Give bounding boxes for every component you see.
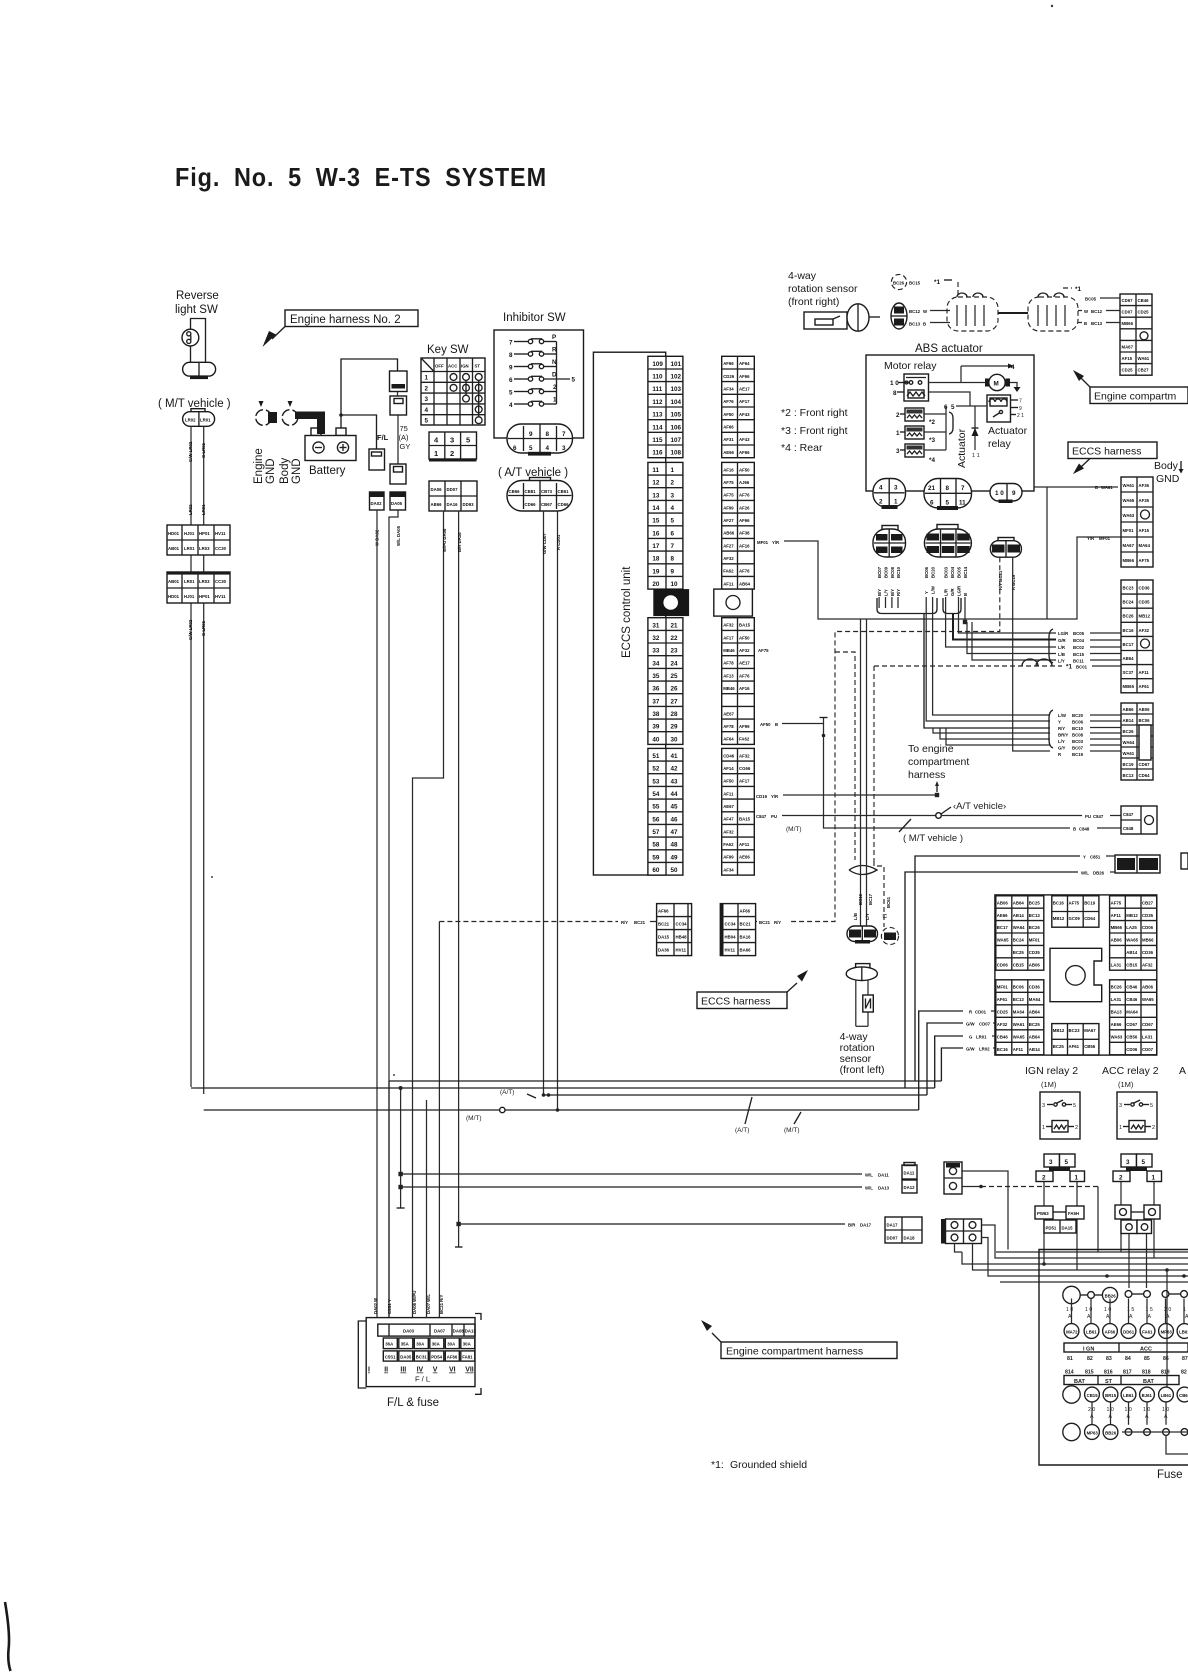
svg-text:BC20: BC20 (931, 566, 936, 578)
svg-text:1: 1 (671, 467, 675, 474)
svg-text:AB14: AB14 (1123, 718, 1135, 723)
svg-text:AF66: AF66 (739, 450, 750, 455)
svg-text:AF76: AF76 (723, 399, 734, 404)
svg-text:AF32: AF32 (997, 1022, 1008, 1027)
svg-text:HB48: HB48 (676, 935, 688, 940)
svg-text:BA16: BA16 (740, 935, 752, 940)
svg-text:46: 46 (671, 816, 679, 823)
svg-text:G/Y: G/Y (1058, 746, 1066, 751)
svg-text:82: 82 (1181, 1370, 1187, 1376)
svg-text:AE66: AE66 (723, 450, 734, 455)
svg-text:AF32: AF32 (1139, 628, 1150, 633)
svg-text:2: 2 (1152, 1125, 1155, 1131)
svg-text:4: 4 (879, 485, 883, 492)
svg-text:AF27: AF27 (723, 543, 734, 548)
svg-text:AF75: AF75 (1111, 900, 1122, 905)
right connector table 5 (1121, 806, 1157, 834)
svg-text:BC31: BC31 (416, 1354, 428, 1359)
svg-text:1: 1 (434, 449, 438, 458)
svg-text:59: 59 (652, 854, 660, 861)
svg-text:DA11: DA11 (904, 1171, 915, 1176)
svg-text:A: A (1129, 1314, 1133, 1320)
svg-text:HV11: HV11 (725, 948, 736, 953)
svg-text:DD07: DD07 (887, 1236, 899, 1241)
wire Y/R corridor (784, 537, 1121, 619)
svg-text:AF36: AF36 (1139, 483, 1150, 488)
wire battery+ up and over (341, 359, 398, 428)
pin 4 lead (961, 365, 1008, 367)
svg-text:AF50: AF50 (739, 635, 750, 640)
svg-text:BC03: BC03 (944, 566, 949, 578)
relay pin drop wires (1043, 1181, 1045, 1264)
svg-text:21: 21 (928, 485, 936, 492)
svg-text:PU: PU (1085, 814, 1091, 819)
svg-text:CD01: CD01 (975, 1010, 987, 1015)
svg-text:9: 9 (509, 365, 513, 372)
mid 2x2 connector with circles (941, 1219, 982, 1244)
R/Y BC21 dash wire left (439, 921, 618, 923)
svg-text:102: 102 (671, 374, 682, 381)
svg-text:LR01: LR01 (976, 1035, 987, 1040)
svg-text:P: P (552, 334, 556, 341)
svg-text:AF66: AF66 (739, 518, 750, 523)
svg-text:(M/T): (M/T) (466, 1115, 482, 1122)
svg-text:CD06: CD06 (1142, 925, 1154, 930)
svg-text:MB66: MB66 (1142, 938, 1154, 943)
svg-text:1: 1 (1075, 1175, 1079, 1182)
svg-text:33: 33 (652, 648, 660, 655)
svg-text:R/Y: R/Y (621, 920, 628, 925)
svg-text:8: 8 (893, 390, 897, 397)
svg-text:CB46: CB46 (997, 1034, 1009, 1039)
svg-text:MP63: MP63 (1087, 1430, 1099, 1435)
svg-text:DA36: DA36 (658, 948, 670, 953)
svg-text:(A/T): (A/T) (500, 1089, 514, 1096)
svg-text:3: 3 (1049, 1159, 1053, 1166)
svg-text:BC15: BC15 (1073, 652, 1085, 657)
svg-text:815: 815 (1085, 1370, 1094, 1376)
svg-text:AB01: AB01 (168, 579, 180, 584)
svg-text:*4 : Rear: *4 : Rear (781, 442, 823, 454)
svg-text:Fig. No. 5 W-3 E-TS SYSTEM: Fig. No. 5 W-3 E-TS SYSTEM (175, 162, 547, 192)
svg-text:W/L: W/L (1081, 871, 1089, 876)
svg-text:I GN: I GN (1083, 1346, 1094, 1352)
svg-text:B: B (775, 722, 778, 727)
svg-text:(A): (A) (399, 433, 410, 442)
svg-text:PU: PU (771, 814, 777, 819)
W/L DA13 wire (401, 1186, 862, 1188)
svg-text:G/W LR02: G/W LR02 (188, 441, 193, 462)
svg-text:F/L & fuse: F/L & fuse (387, 1397, 439, 1409)
band line L3 (G/W CD07) (544, 1094, 928, 1096)
DA17 connector table (885, 1217, 922, 1243)
svg-text:HD01: HD01 (168, 594, 180, 599)
svg-text:CD35: CD35 (1029, 950, 1041, 955)
svg-text:AF61: AF61 (997, 997, 1008, 1002)
svg-text:BC13: BC13 (1091, 321, 1103, 326)
svg-text:HD01: HD01 (168, 531, 180, 536)
svg-text:MF01: MF01 (757, 540, 769, 545)
wire branch to DA02 (341, 415, 377, 449)
svg-text:CD36: CD36 (1029, 984, 1041, 989)
svg-text:DA17: DA17 (887, 1223, 899, 1228)
svg-text:9: 9 (529, 431, 533, 438)
svg-text:LA31: LA31 (1111, 997, 1122, 1002)
solenoid bus (945, 406, 947, 450)
svg-text:BC10: BC10 (1072, 726, 1084, 731)
svg-text:DD07: DD07 (447, 487, 459, 492)
svg-text:AB06: AB06 (1111, 938, 1123, 943)
svg-text:AF32: AF32 (1142, 962, 1153, 967)
svg-text:BC04: BC04 (1073, 638, 1085, 643)
svg-text:Y: Y (1083, 855, 1086, 860)
svg-text:9: 9 (671, 568, 675, 575)
svg-text:BC08: BC08 (1072, 733, 1084, 738)
svg-text:CD67: CD67 (1126, 1022, 1138, 1027)
svg-text:AE17: AE17 (739, 387, 750, 392)
svg-text:AF99: AF99 (739, 724, 750, 729)
svg-text:R BC19: R BC19 (1011, 574, 1016, 590)
svg-text:41: 41 (671, 753, 679, 760)
svg-text:ST: ST (1105, 1379, 1113, 1385)
svg-text:CD06: CD06 (997, 962, 1009, 967)
svg-text:111: 111 (652, 386, 662, 393)
svg-text:B: B (963, 593, 968, 596)
heavy link wire (998, 312, 1028, 314)
svg-text:relay: relay (988, 438, 1012, 450)
svg-text:ACC: ACC (1140, 1346, 1152, 1352)
svg-text:G/W: G/W (966, 1022, 976, 1027)
small connector PW63/FA5H (1035, 1206, 1084, 1233)
svg-text:WA61: WA61 (1138, 356, 1150, 361)
svg-text:ABS actuator: ABS actuator (915, 343, 983, 355)
svg-text:WA61: WA61 (1101, 485, 1113, 490)
svg-text:MA72: MA72 (1066, 1329, 1078, 1334)
svg-text:Engine compartm: Engine compartm (1094, 391, 1177, 403)
svg-text:Actuator: Actuator (956, 428, 968, 468)
svg-text:114: 114 (652, 424, 663, 431)
svg-text:Key SW: Key SW (427, 344, 469, 356)
svg-text:rotation sensor: rotation sensor (788, 283, 858, 295)
svg-text:AB64: AB64 (739, 581, 751, 586)
wire BC21 R/Y down to F/L (438, 922, 440, 1318)
ABS oval connector 2 (924, 479, 972, 511)
svg-text:DA05: DA05 (391, 501, 403, 506)
svg-text:8: 8 (509, 352, 513, 359)
svg-text:25: 25 (671, 673, 679, 680)
svg-text:39: 39 (652, 724, 660, 731)
svg-text:53: 53 (652, 778, 660, 785)
svg-text:1: 1 (1119, 1125, 1122, 1131)
svg-text:AF66: AF66 (723, 425, 734, 430)
ECCS control unit box (593, 352, 665, 875)
svg-text:DA13: DA13 (878, 1186, 890, 1191)
R/Y BC21 dashed loop from oval6 (790, 557, 1000, 921)
svg-text:MB12: MB12 (1126, 913, 1138, 918)
svg-text:CD66: CD66 (558, 502, 570, 507)
svg-text:C847: C847 (1093, 814, 1104, 819)
BC12/BC13 oval connector (891, 303, 907, 329)
svg-text:*2 : Front right: *2 : Front right (781, 407, 848, 419)
svg-text:30: 30 (671, 736, 679, 743)
svg-text:MB66: MB66 (1111, 925, 1123, 930)
svg-text:BC02: BC02 (1073, 645, 1085, 650)
svg-text:BC12: BC12 (1091, 309, 1103, 314)
motor ground (1010, 383, 1017, 388)
svg-text:Actuator: Actuator (988, 425, 1028, 437)
svg-text:WA65: WA65 (1123, 498, 1135, 503)
svg-text:23: 23 (671, 648, 679, 655)
svg-text:CD35: CD35 (1139, 600, 1151, 605)
wire W/L DA05 down (389, 510, 398, 1318)
svg-text:( M/T vehicle ): ( M/T vehicle ) (903, 833, 963, 844)
engine compartment harness big connector block (995, 895, 1157, 1055)
svg-text:103: 103 (671, 386, 682, 393)
svg-text:BC20: BC20 (1072, 713, 1084, 718)
svg-text:816: 816 (1104, 1370, 1113, 1376)
svg-text:1: 1 (1152, 1175, 1156, 1182)
svg-text:AF61: AF61 (1069, 1044, 1080, 1049)
svg-text:7: 7 (671, 543, 675, 550)
junction (339, 413, 343, 417)
svg-text:AF75: AF75 (1069, 900, 1080, 905)
*1 BC05 dashed stub (1063, 287, 1072, 289)
svg-text:AF78: AF78 (723, 724, 734, 729)
right connector table 4 (1121, 703, 1153, 780)
svg-text:AB64: AB64 (1013, 900, 1025, 905)
svg-text:48: 48 (671, 842, 679, 849)
svg-text:116: 116 (652, 450, 663, 457)
fusible link connector a (390, 371, 408, 392)
svg-text:G/W LR02: G/W LR02 (188, 619, 193, 640)
svg-text:L/Y: L/Y (865, 913, 870, 920)
wire W/PU DA06 (413, 511, 444, 1318)
svg-text:‹A/T vehicle›: ‹A/T vehicle› (953, 801, 1006, 812)
svg-text:MA64: MA64 (1013, 1009, 1025, 1014)
svg-text:DA02 W: DA02 W (373, 1297, 378, 1314)
svg-text:BC23: BC23 (1069, 1028, 1081, 1033)
fusible link connector b (390, 396, 407, 415)
svg-text:MF01: MF01 (997, 984, 1009, 989)
svg-text:HV11: HV11 (676, 948, 687, 953)
svg-text:BC16: BC16 (1123, 628, 1135, 633)
svg-text:MA67: MA67 (1122, 344, 1134, 349)
svg-text:IV: IV (417, 1367, 424, 1374)
svg-text:AF26: AF26 (739, 505, 750, 510)
svg-text:AF11: AF11 (1111, 913, 1122, 918)
connector d (369, 449, 385, 470)
svg-text:MF01: MF01 (1123, 528, 1135, 533)
svg-text:CD64: CD64 (1139, 773, 1151, 778)
svg-text:BC06: BC06 (1013, 984, 1025, 989)
svg-text:9: 9 (1019, 406, 1022, 412)
svg-text:Grounded shield: Grounded shield (730, 1459, 807, 1471)
Engine compartment harness label box (701, 1320, 897, 1359)
svg-text:WA64: WA64 (1123, 740, 1135, 745)
svg-text:C5S1: C5S1 (385, 1354, 396, 1359)
mid table pair: right (720, 904, 755, 956)
right connector table 6 (1115, 855, 1160, 873)
svg-text:BC14: BC14 (963, 566, 968, 578)
svg-text:CC30: CC30 (215, 546, 227, 551)
svg-text:C848: C848 (1123, 826, 1134, 831)
small connector with circles (right) (1115, 1205, 1160, 1234)
svg-text:CC30: CC30 (215, 579, 227, 584)
svg-text:30A: 30A (447, 1342, 455, 1347)
svg-text:PD54: PD54 (431, 1354, 442, 1359)
svg-text:WA63: WA63 (1111, 1034, 1123, 1039)
svg-text:CD36: CD36 (1142, 950, 1154, 955)
svg-text:AB64: AB64 (1123, 656, 1135, 661)
svg-text:AF50: AF50 (723, 779, 734, 784)
svg-text:HP01: HP01 (199, 594, 210, 599)
B/R DA17 wire (459, 1223, 845, 1225)
solenoid 1 (896, 426, 946, 439)
svg-text:37: 37 (652, 698, 660, 705)
svg-text:105: 105 (671, 412, 682, 419)
svg-text:DA05: DA05 (400, 1354, 412, 1359)
svg-text:BC13: BC13 (1029, 913, 1041, 918)
svg-text:AF78: AF78 (723, 661, 734, 666)
svg-text:AF34: AF34 (723, 867, 734, 872)
svg-text:HJ01: HJ01 (184, 594, 195, 599)
svg-text:OFF: OFF (435, 364, 444, 369)
svg-text:MB65: MB65 (1123, 684, 1135, 689)
svg-text:BC19: BC19 (1084, 900, 1096, 905)
svg-text:3: 3 (1126, 1159, 1130, 1166)
svg-text:55: 55 (652, 804, 660, 811)
reverse light SW connector (183, 362, 216, 376)
svg-text:AF31: AF31 (723, 437, 734, 442)
svg-text:AF50: AF50 (739, 467, 750, 472)
svg-text:BJ61: BJ61 (1142, 1393, 1153, 1398)
svg-text:BC10: BC10 (896, 566, 901, 578)
svg-text:DA18: DA18 (904, 1236, 916, 1241)
svg-text:LA31: LA31 (1142, 1034, 1153, 1039)
svg-text:GND: GND (265, 458, 277, 484)
svg-text:DD61: DD61 (1123, 1329, 1135, 1334)
svg-text:MA64: MA64 (1139, 543, 1151, 548)
svg-text:2: 2 (450, 449, 454, 458)
svg-text:BC06: BC06 (924, 566, 929, 578)
svg-text:26: 26 (671, 686, 679, 693)
svg-text:BC17: BC17 (864, 932, 875, 937)
svg-text:*1: *1 (1066, 664, 1072, 671)
svg-text:35: 35 (652, 673, 660, 680)
svg-text:WA65: WA65 (1126, 938, 1138, 943)
dashed stub *1 (957, 282, 959, 297)
svg-text:GY: GY (400, 442, 411, 451)
svg-text:AF61: AF61 (1139, 684, 1150, 689)
svg-text:84: 84 (1125, 1356, 1131, 1362)
svg-text:104: 104 (671, 399, 682, 406)
svg-text:Body: Body (1154, 460, 1179, 472)
svg-text:11: 11 (652, 467, 659, 474)
svg-text:BC16: BC16 (1053, 900, 1065, 905)
svg-text:AF32: AF32 (739, 648, 750, 653)
svg-text:3: 3 (425, 396, 429, 403)
front-right sensor symbol (804, 312, 847, 329)
svg-text:BC25: BC25 (1029, 900, 1041, 905)
svg-text:BC06: BC06 (1139, 718, 1151, 723)
svg-text:WA64: WA64 (1013, 925, 1025, 930)
svg-text:BC24: BC24 (1013, 938, 1025, 943)
svg-text:BC25: BC25 (1053, 1044, 1065, 1049)
svg-text:ECCS harness: ECCS harness (701, 996, 770, 1008)
svg-text:13: 13 (652, 492, 660, 499)
shield B (1028, 293, 1078, 331)
DA12 connector (902, 1180, 917, 1193)
table4 bundle (933, 728, 1050, 733)
svg-text:BC19: BC19 (1008, 547, 1019, 552)
svg-text:L/B: L/B (853, 913, 858, 920)
svg-text:CB73: CB73 (541, 489, 553, 494)
svg-text:106: 106 (671, 424, 682, 431)
svg-text:87: 87 (1182, 1356, 1188, 1362)
svg-text:CB61: CB61 (1179, 1393, 1188, 1398)
BC61 dashed shield circle (881, 927, 898, 944)
svg-text:*2: *2 (929, 419, 935, 426)
svg-text:19: 19 (652, 568, 660, 575)
weave wires to fuse panel (982, 1225, 1188, 1258)
svg-text:G LR01: G LR01 (201, 442, 206, 458)
svg-text:BC21: BC21 (992, 547, 1003, 552)
svg-text:CD26: CD26 (723, 374, 735, 379)
svg-text:AF17: AF17 (723, 635, 734, 640)
speck top (1051, 5, 1053, 7)
svg-text:DA06 W/PU: DA06 W/PU (412, 1291, 417, 1314)
lower oval 6 (BC21/BC19) (990, 538, 1021, 558)
solenoid 2 (896, 408, 946, 421)
svg-text:WA61: WA61 (1013, 1022, 1025, 1027)
svg-text:DD93: DD93 (463, 502, 475, 507)
svg-text:BC03: BC03 (1072, 739, 1084, 744)
svg-text:AF11: AF11 (723, 581, 734, 586)
svg-text:Y/R: Y/R (772, 540, 780, 545)
svg-text:AF11: AF11 (739, 842, 750, 847)
svg-text:*1: *1 (934, 279, 940, 286)
svg-text:L/W: L/W (1058, 713, 1067, 718)
svg-text:27: 27 (671, 698, 679, 705)
svg-text:CD07: CD07 (1142, 1047, 1154, 1052)
motor relay to actuator link (929, 392, 971, 406)
table3 bundle labels (1049, 629, 1053, 663)
svg-text:AF76: AF76 (739, 673, 750, 678)
svg-text:A: A (1148, 1314, 1152, 1320)
svg-text:5: 5 (946, 500, 950, 507)
svg-text:17: 17 (652, 543, 660, 550)
ABS actuator box (866, 355, 1034, 491)
svg-text:2: 2 (1119, 1175, 1123, 1182)
svg-text:(A/T): (A/T) (735, 1127, 749, 1134)
svg-text:817: 817 (1123, 1370, 1132, 1376)
svg-text:AF13: AF13 (723, 673, 734, 678)
svg-text:MA67: MA67 (1084, 1028, 1096, 1033)
svg-text:BC25: BC25 (1029, 1022, 1041, 1027)
svg-text:C848: C848 (1079, 827, 1090, 832)
top-right connector table (1120, 294, 1152, 375)
svg-text:AF75: AF75 (758, 648, 769, 653)
svg-text:1: 1 (896, 430, 900, 437)
svg-text:2: 2 (1075, 1125, 1078, 1131)
svg-text:AF47: AF47 (723, 817, 734, 822)
svg-text:G/R: G/R (950, 587, 955, 596)
wires to BC15/BC11 (967, 622, 1056, 654)
svg-text:BC15: BC15 (909, 281, 921, 286)
svg-text:MB66: MB66 (1122, 321, 1134, 326)
svg-text:20: 20 (652, 581, 660, 588)
Engine harness No.2 box (263, 310, 419, 347)
